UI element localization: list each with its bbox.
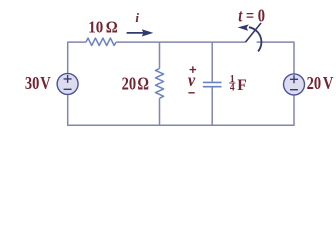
20V minus sign bbox=[290, 89, 298, 91]
svg-text:20: 20 bbox=[122, 75, 136, 93]
svg-text:10: 10 bbox=[88, 19, 103, 37]
capacitor C1 branch: top lead bbox=[211, 42, 213, 82]
resistor R2 20 ohm branch: top lead bbox=[159, 42, 161, 68]
svg-text:Ω: Ω bbox=[137, 75, 149, 93]
svg-text:i: i bbox=[135, 10, 139, 25]
capacitor polarity minus sign bbox=[188, 92, 194, 94]
wire: top wire middle segment (resistor to switch hinge) bbox=[116, 41, 246, 43]
20V plus sign bbox=[290, 75, 298, 83]
resistor R2 20 ohm branch: bottom lead bbox=[159, 98, 161, 125]
fraction bar bbox=[229, 82, 235, 84]
svg-text:t = 0: t = 0 bbox=[238, 8, 265, 26]
capacitor C1 bottom plate bbox=[203, 86, 222, 88]
wire: bottom rail (bottom-left corner to bottom-right corner) bbox=[68, 95, 294, 125]
switch closing arc arrow bbox=[249, 27, 262, 51]
svg-text:Ω: Ω bbox=[106, 19, 118, 37]
switch arc arrowhead bbox=[238, 24, 249, 30]
svg-text:V: V bbox=[323, 75, 334, 93]
capacitor C1 top plate bbox=[203, 81, 222, 83]
svg-text:20: 20 bbox=[307, 75, 321, 93]
resistor R2 20 ohm (vertical zigzag) bbox=[156, 69, 164, 99]
30V minus sign bbox=[64, 88, 72, 90]
svg-text:v: v bbox=[188, 70, 195, 90]
switch blade (open, tilted up-right) bbox=[246, 23, 262, 42]
wire: top-left corner segment (left branch up and right to resistor) bbox=[68, 42, 86, 73]
resistor R1 10 ohm (horizontal zigzag) bbox=[86, 38, 116, 45]
voltage source V1 30V (circle) bbox=[57, 73, 78, 94]
capacitor polarity plus sign bbox=[190, 66, 197, 73]
wire: top wire right segment (switch contact to top-right corner down to 20V source) bbox=[257, 42, 294, 74]
svg-text:30: 30 bbox=[25, 75, 39, 93]
svg-text:V: V bbox=[40, 75, 51, 93]
current arrow i bbox=[127, 32, 146, 34]
capacitor C1 branch: bottom lead bbox=[211, 88, 213, 126]
svg-text:4: 4 bbox=[230, 82, 235, 94]
svg-text:F: F bbox=[237, 77, 246, 94]
30V plus sign bbox=[64, 75, 72, 83]
voltage source V2 20V (circle) bbox=[284, 74, 305, 95]
